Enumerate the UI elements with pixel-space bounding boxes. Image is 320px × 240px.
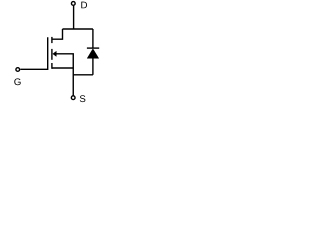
label D <box>81 2 87 9</box>
N-channel MOSFET with body diode schematic <box>0 0 116 114</box>
diode D1 cathode bar <box>87 47 99 49</box>
wire: top rail to diode <box>63 28 93 30</box>
MOSFET Q1 substrate arrow <box>53 51 57 56</box>
wire: D terminal lead <box>73 6 75 29</box>
diode D1 triangle <box>87 49 99 59</box>
label S <box>80 95 86 102</box>
wire: bottom rail to diode anode <box>73 74 93 76</box>
MOSFET Q1 channel bar bottom (source segment) <box>51 63 53 69</box>
wire: body connection to S <box>56 54 73 96</box>
terminal D circle <box>71 2 75 6</box>
wire: diode anode lead <box>92 58 94 75</box>
wire: source lead <box>52 67 73 69</box>
terminal S circle <box>71 96 75 100</box>
label G <box>14 78 20 85</box>
MOSFET Q1 channel bar top (drain segment) <box>51 37 53 43</box>
wire: diode cathode lead <box>92 29 94 48</box>
wire: gate lead from G terminal to gate bar <box>20 37 47 69</box>
terminal G circle <box>16 68 20 72</box>
MOSFET Q1 channel bar middle (body segment) <box>51 49 53 60</box>
wire: drain lead <box>52 29 63 39</box>
